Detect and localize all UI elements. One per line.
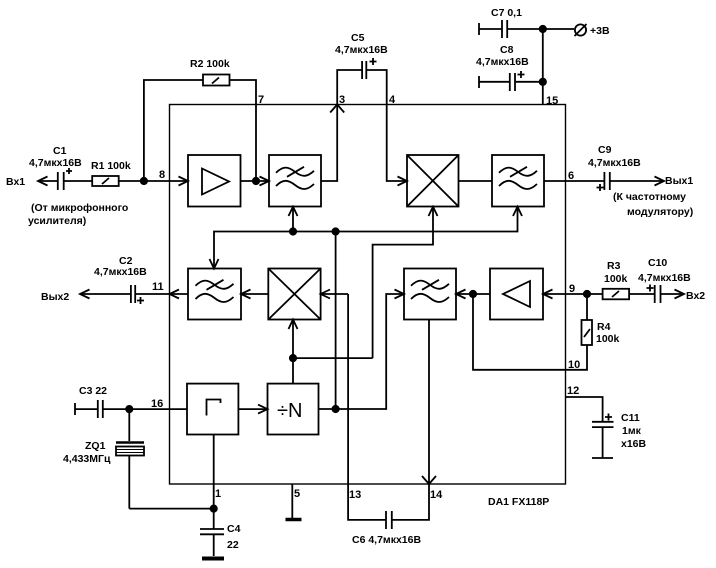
pin 14 direction arrow (down) bbox=[422, 476, 436, 484]
node: C8 junction bbox=[540, 79, 546, 85]
amplifier block (input amp, row 1) bbox=[188, 155, 241, 207]
resistor R2 bbox=[203, 75, 230, 86]
svg-text:R1 100k: R1 100k bbox=[91, 160, 131, 172]
wire: divider output to filter3 left input bbox=[319, 294, 405, 409]
arrowhead into mixer2 right side bbox=[321, 290, 330, 299]
svg-text:усилителя): усилителя) bbox=[28, 215, 86, 227]
arrowhead up into mixer2 bottom bbox=[289, 320, 298, 330]
svg-text:4,7мкх16В: 4,7мкх16В bbox=[335, 44, 388, 56]
capacitor C7 bbox=[479, 20, 543, 38]
resistor R1 bbox=[92, 176, 119, 186]
arrowhead out of pin 11 bbox=[170, 290, 180, 299]
arrowhead into filter3 left side bbox=[395, 290, 405, 299]
svg-text:100k: 100k bbox=[604, 273, 628, 285]
wire: node below mixer2 down into divider top bbox=[292, 358, 294, 384]
svg-text:х16В: х16В bbox=[621, 438, 647, 450]
svg-text:6: 6 bbox=[568, 170, 574, 182]
svg-text:С10: С10 bbox=[648, 257, 667, 269]
svg-text:16: 16 bbox=[151, 398, 163, 410]
svg-text:С7 0,1: С7 0,1 bbox=[491, 7, 522, 19]
svg-text:(К частотному: (К частотному bbox=[613, 191, 686, 203]
oscillator block G (row 3) bbox=[187, 384, 238, 435]
wire: supply node vertical to pin 15 bbox=[542, 29, 544, 105]
input terminal Vx2 arrow bbox=[675, 290, 685, 299]
crystal ZQ1 bbox=[116, 443, 144, 509]
node: bus-filter1 junction bbox=[290, 228, 296, 234]
pin 3 direction arrow (up) bbox=[330, 105, 344, 113]
wire: amp output to filter1 bbox=[241, 180, 270, 182]
svg-text:4,7мкх16В: 4,7мкх16В bbox=[29, 157, 82, 169]
svg-text:ZQ1: ZQ1 bbox=[85, 440, 106, 452]
svg-text:100k: 100k bbox=[596, 333, 620, 345]
capacitor C5 bbox=[337, 58, 387, 105]
wire: mixer2 input from pin 13 line bbox=[321, 293, 349, 295]
node: pin 1 junction bbox=[211, 505, 217, 511]
wire: amp2 output to filter3 bbox=[456, 293, 473, 295]
svg-text:11: 11 bbox=[152, 281, 164, 293]
arrowhead up into filter1 bottom bbox=[289, 207, 298, 216]
mixer block (row 1) bbox=[407, 155, 459, 207]
capacitor C11 bbox=[592, 414, 614, 459]
wire: C3 to pin 16 bbox=[103, 408, 170, 410]
svg-text:С3 22: С3 22 bbox=[79, 385, 107, 397]
wire: R1 to pin 8 bbox=[119, 180, 170, 182]
svg-text:4,7мкх16В: 4,7мкх16В bbox=[476, 56, 529, 68]
wire: mixer1 output to filter2 bbox=[459, 180, 493, 182]
wire: C10 to Vx2 arrow bbox=[661, 293, 684, 295]
svg-text:1мк: 1мк bbox=[622, 425, 642, 437]
capacitor C2 bbox=[131, 285, 144, 304]
node A: amp input junction bbox=[141, 178, 147, 184]
svg-text:4,7мкх16В: 4,7мкх16В bbox=[94, 266, 147, 278]
wire: pin 12 to C11 bbox=[566, 397, 603, 422]
wire: R3 to C10 bbox=[629, 293, 655, 295]
wire: C1 to R1 bbox=[64, 180, 92, 182]
svg-text:Вых1: Вых1 bbox=[665, 175, 693, 187]
IC DA1 FX118P boundary bbox=[170, 105, 566, 485]
svg-text:С6 4,7мкх16В: С6 4,7мкх16В bbox=[352, 534, 421, 546]
wire: C9 to Vyx1 arrow bbox=[610, 180, 663, 182]
wire: C2 to pin 11 bbox=[135, 293, 169, 295]
svg-text:R4: R4 bbox=[597, 321, 611, 333]
input terminal Vx1 arrow bbox=[38, 177, 48, 186]
arrowhead into mixer1 bbox=[398, 177, 408, 186]
output terminal Vyx1 arrow bbox=[655, 177, 665, 186]
wire: oscillator bottom to pin 1 bbox=[213, 435, 215, 485]
node: divider output junction bbox=[332, 406, 338, 412]
node: crystal junction bbox=[126, 406, 132, 412]
svg-text:DA1 FX118P: DA1 FX118P bbox=[488, 496, 549, 508]
wire: R2 feedback loop bbox=[144, 80, 256, 181]
node B: amp output junction bbox=[253, 178, 259, 184]
filter block (row 2 left, pin 11 output) bbox=[188, 269, 241, 320]
arrowhead into filter3 right side bbox=[456, 290, 466, 299]
svg-text:3: 3 bbox=[339, 94, 345, 106]
svg-text:1: 1 bbox=[215, 488, 221, 500]
capacitor C1 bbox=[58, 168, 72, 190]
wire: filter1 output up to pin 3 bbox=[321, 105, 337, 182]
capacitor C6 bbox=[386, 511, 392, 529]
arrowhead into amp2 right side bbox=[543, 290, 553, 299]
svg-text:14: 14 bbox=[430, 489, 443, 501]
svg-text:22: 22 bbox=[227, 539, 239, 551]
wire: pin 8 input into amp bbox=[170, 180, 189, 182]
capacitor C9 bbox=[597, 172, 610, 191]
wire: node below mixer2 to mixer2 bottom bbox=[292, 320, 294, 359]
resistor R3 bbox=[603, 289, 630, 300]
svg-text:4,433МГц: 4,433МГц bbox=[63, 453, 111, 465]
wire: crystal to pin 1 node bbox=[129, 508, 213, 510]
svg-text:10: 10 bbox=[568, 359, 580, 371]
mixer block (row 2) bbox=[268, 269, 320, 320]
wire: mixer1 bottom path bbox=[373, 207, 433, 358]
wire: filter3 bottom down to pin 14 bbox=[428, 320, 430, 485]
capacitor C4 bbox=[200, 509, 224, 556]
wire: internal bus between rows bbox=[214, 207, 518, 269]
arrowhead up into filter2 bottom bbox=[513, 207, 522, 216]
wire: bus branch up into filter1 bottom bbox=[292, 207, 294, 232]
arrowhead into divider left side bbox=[258, 405, 268, 414]
svg-text:4,7мкх16В: 4,7мкх16В bbox=[638, 272, 691, 284]
node: amp2-filter3 junction bbox=[470, 291, 476, 297]
wire: pin 13 vertical bbox=[347, 294, 349, 484]
arrowhead into filter1 bbox=[260, 177, 270, 186]
resistor R4 bbox=[566, 294, 593, 370]
svg-text:15: 15 bbox=[546, 95, 558, 107]
svg-text:С9: С9 bbox=[598, 144, 612, 156]
svg-text:5: 5 bbox=[294, 488, 300, 500]
svg-text:÷N: ÷N bbox=[277, 400, 302, 422]
wire: mixer2 to filter row2 left bbox=[241, 293, 268, 295]
node: bus-divider junction bbox=[332, 228, 338, 234]
wire: oscillator output to divider bbox=[238, 408, 267, 410]
svg-text:4: 4 bbox=[389, 94, 396, 106]
wire: bus branch down to divider output bbox=[335, 232, 337, 410]
wire: pin 9 to amp2 through node bbox=[473, 293, 566, 295]
wire: node below mixer2 horizontal bbox=[293, 357, 373, 359]
capacitor C3 bbox=[98, 400, 103, 418]
svg-text:9: 9 bbox=[569, 283, 575, 295]
svg-text:4,7мкх16В: 4,7мкх16В bbox=[588, 157, 641, 169]
wire: pin 16 into oscillator bbox=[170, 408, 188, 410]
svg-text:Вх2: Вх2 bbox=[686, 290, 705, 302]
svg-text:R2 100k: R2 100k bbox=[190, 58, 230, 70]
svg-text:С8: С8 bbox=[500, 44, 514, 56]
filter block (row 1 output) bbox=[492, 155, 544, 207]
svg-text:R3: R3 bbox=[607, 260, 621, 272]
svg-text:8: 8 bbox=[159, 169, 165, 181]
wire: pin 5 to ground bbox=[291, 484, 293, 518]
svg-text:С1: С1 bbox=[53, 145, 67, 157]
node: pin 9 external junction bbox=[584, 291, 590, 297]
svg-text:+3В: +3В bbox=[590, 25, 610, 37]
wire: C6 to pin 14 bbox=[392, 484, 429, 520]
svg-text:Вх1: Вх1 bbox=[6, 176, 25, 188]
capacitor C8 bbox=[479, 71, 543, 91]
wire: filter2 output to pin 6 bbox=[544, 180, 566, 182]
wire: pin 6 to C9 bbox=[566, 180, 605, 182]
terminal +3V circle bbox=[575, 24, 587, 36]
wire: node to pin 10 feedback bbox=[473, 294, 566, 370]
wire: C3 lead bbox=[75, 403, 98, 415]
wire: pin 13 down to C6 bbox=[348, 484, 386, 520]
svg-text:7: 7 bbox=[258, 94, 264, 106]
node: C7 junction bbox=[540, 26, 546, 32]
amplifier block (row 2, pin 9 input) bbox=[490, 269, 543, 320]
wire: node to +3V terminal bbox=[543, 28, 574, 30]
arrowhead into filter row2 right side bbox=[241, 290, 251, 299]
arrowhead into amp1 bbox=[179, 177, 189, 186]
arrowhead up into mixer1 bottom bbox=[429, 207, 438, 216]
wire: Vyx2 arrow to C2 bbox=[82, 293, 131, 295]
output terminal Vyx2 arrow bbox=[80, 290, 90, 299]
svg-text:С11: С11 bbox=[621, 412, 640, 424]
wire: pin 11 output from filter row2 bbox=[170, 293, 189, 295]
capacitor C10 bbox=[647, 285, 661, 304]
svg-text:С5: С5 bbox=[351, 32, 365, 44]
wire: node down to crystal bbox=[128, 409, 130, 441]
wire: pin 9 to R3 node bbox=[566, 293, 603, 295]
wire: pin 1 down to node bbox=[213, 484, 215, 509]
arrowhead down into filter row2 top bbox=[210, 259, 219, 269]
svg-text:13: 13 bbox=[349, 489, 361, 501]
filter block (row 2 right) bbox=[404, 269, 456, 320]
wire: Vx1 to C1 bbox=[40, 180, 58, 182]
svg-text:С4: С4 bbox=[227, 523, 241, 535]
node: below mixer2 junction bbox=[290, 355, 296, 361]
divider block /N (row 3) bbox=[268, 384, 319, 435]
ground at pin 5 bbox=[286, 518, 302, 522]
svg-text:(От микрофонного: (От микрофонного bbox=[31, 202, 128, 214]
svg-text:модулятору): модулятору) bbox=[627, 206, 693, 218]
svg-text:Вых2: Вых2 bbox=[41, 291, 69, 303]
ground below C4 bbox=[202, 557, 224, 561]
wire: pin 4 down to mixer1 input bbox=[387, 105, 407, 182]
svg-text:12: 12 bbox=[567, 385, 579, 397]
filter block (row 1) bbox=[269, 155, 321, 207]
